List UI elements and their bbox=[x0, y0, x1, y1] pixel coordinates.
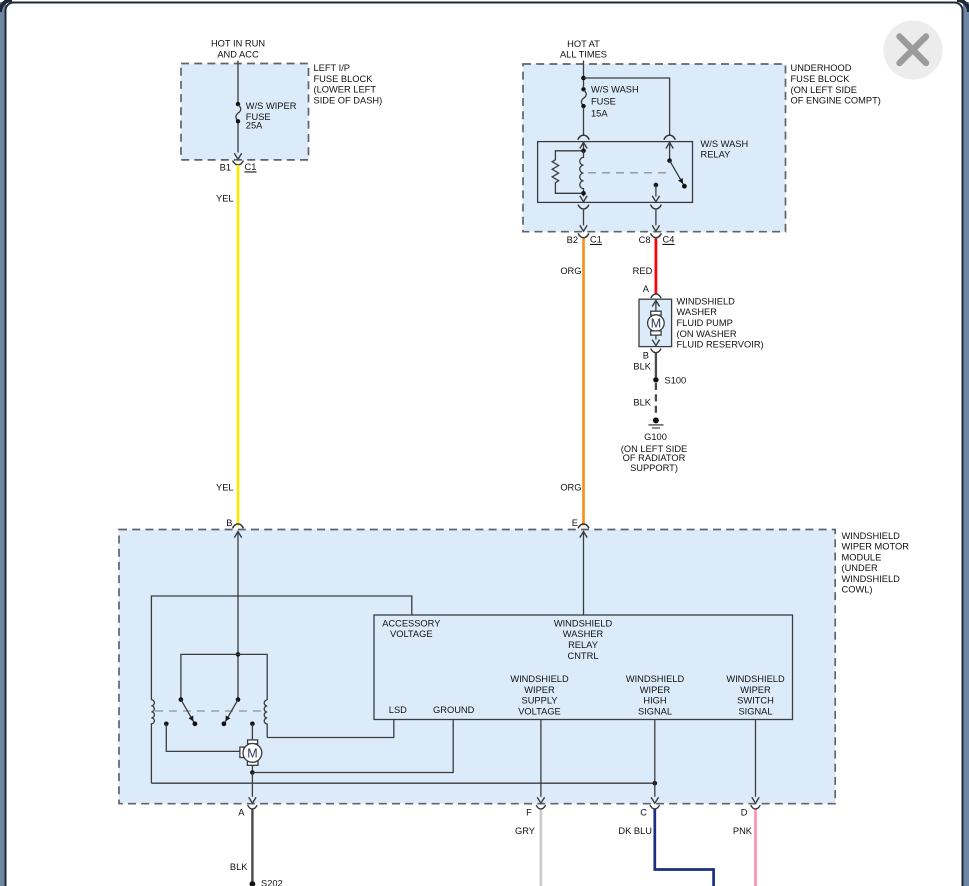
svg-text:15A: 15A bbox=[591, 108, 608, 118]
svg-text:BLK: BLK bbox=[633, 361, 651, 371]
ground wire motor to control box bbox=[252, 720, 453, 773]
relay coil bbox=[580, 149, 586, 196]
svg-text:CNTRL: CNTRL bbox=[568, 651, 599, 661]
svg-text:D: D bbox=[741, 808, 748, 818]
svg-text:FUSE BLOCK: FUSE BLOCK bbox=[314, 74, 374, 84]
wire PNK bbox=[754, 810, 757, 886]
svg-text:ORG: ORG bbox=[560, 483, 581, 493]
left I/P fuse block box bbox=[181, 64, 309, 160]
cup connector below pump bbox=[651, 349, 661, 353]
svg-text:F: F bbox=[526, 808, 532, 818]
svg-text:FLUID RESERVOIR): FLUID RESERVOIR) bbox=[677, 340, 764, 350]
switch feed rail bbox=[181, 654, 267, 700]
underhood fuse block box bbox=[523, 64, 786, 232]
svg-text:WINDSHIELD: WINDSHIELD bbox=[842, 531, 901, 541]
svg-text:WINDSHIELD: WINDSHIELD bbox=[677, 296, 736, 306]
accessory voltage feed wire bbox=[151, 596, 411, 700]
pin label E (module) bbox=[572, 518, 578, 528]
svg-text:(ON LEFT SIDE: (ON LEFT SIDE bbox=[791, 85, 857, 95]
junction dot on B wire bbox=[236, 652, 241, 657]
svg-text:RELAY: RELAY bbox=[701, 150, 731, 160]
svg-text:OF ENGINE COMPT): OF ENGINE COMPT) bbox=[791, 96, 881, 106]
svg-text:SIDE OF DASH): SIDE OF DASH) bbox=[314, 95, 383, 105]
connector cup B2/C1 bbox=[578, 233, 589, 237]
cap connector at pin E bbox=[578, 524, 589, 528]
svg-text:VOLTAGE: VOLTAGE bbox=[518, 706, 561, 716]
pin label F (bottom) bbox=[526, 808, 532, 818]
svg-text:VOLTAGE: VOLTAGE bbox=[390, 629, 433, 639]
label WINDSHIELD WIPER MOTOR MODULE bbox=[842, 531, 910, 595]
label S100 bbox=[665, 375, 687, 385]
SECTION: underhood fuse block bbox=[523, 39, 881, 526]
fuse W/S WASH 15A bbox=[581, 87, 586, 108]
svg-text:YEL: YEL bbox=[216, 483, 234, 493]
wire BLK dashed to ground bbox=[655, 383, 657, 417]
relay coil pin entry arrow bbox=[580, 143, 587, 151]
fuse W/S WIPER 25A bbox=[236, 102, 241, 124]
control unit box bbox=[374, 615, 793, 720]
svg-text:UNDERHOOD: UNDERHOOD bbox=[791, 63, 852, 73]
svg-text:C1: C1 bbox=[590, 235, 602, 245]
pin label B (module) bbox=[226, 518, 232, 528]
svg-text:YEL: YEL bbox=[216, 193, 234, 203]
label LEFT I/P FUSE BLOCK bbox=[314, 63, 383, 105]
pin label D (bottom) bbox=[741, 808, 748, 818]
wire pin B down to switch pivot bbox=[234, 532, 241, 700]
cap connector at pin B bbox=[233, 524, 244, 528]
label WINDSHIELD WASHER FLUID PUMP bbox=[677, 296, 764, 349]
pin label A (pump) bbox=[643, 284, 650, 294]
label W/S WIPER FUSE 25A bbox=[246, 101, 297, 131]
svg-text:G100: G100 bbox=[644, 432, 667, 442]
svg-text:WINDSHIELD: WINDSHIELD bbox=[510, 674, 569, 684]
label ORG upper bbox=[560, 266, 581, 276]
svg-text:LEFT I/P: LEFT I/P bbox=[314, 63, 351, 73]
svg-text:ACCESSORY: ACCESSORY bbox=[382, 618, 440, 628]
svg-text:WIPER: WIPER bbox=[740, 685, 771, 695]
svg-text:SUPPLY: SUPPLY bbox=[522, 696, 558, 706]
linkage dashed (module) bbox=[155, 710, 264, 712]
SECTION: wiper motor module bbox=[119, 518, 909, 804]
wire YEL vertical bbox=[237, 165, 240, 526]
svg-text:SUPPORT): SUPPORT) bbox=[630, 463, 678, 473]
label WINDSHIELD WASHER RELAY CNTRL bbox=[554, 618, 613, 660]
connector cup pin F bbox=[536, 805, 546, 809]
svg-text:FUSE: FUSE bbox=[591, 97, 616, 107]
svg-text:RELAY: RELAY bbox=[568, 640, 598, 650]
wire BLK to S202 bbox=[251, 810, 253, 883]
svg-text:SIGNAL: SIGNAL bbox=[638, 706, 672, 716]
pin label C1 underlined bbox=[590, 235, 602, 245]
relay coil exit arrow bbox=[580, 196, 587, 202]
label UNDERHOOD FUSE BLOCK bbox=[791, 63, 881, 105]
svg-text:OF RADIATOR: OF RADIATOR bbox=[623, 453, 686, 463]
svg-text:WASHER: WASHER bbox=[563, 629, 604, 639]
svg-text:SWITCH: SWITCH bbox=[737, 696, 774, 706]
label YEL upper bbox=[216, 193, 234, 203]
label RED bbox=[633, 266, 653, 276]
label WINDSHIELD WIPER HIGH SIGNAL bbox=[626, 674, 685, 716]
splice S100 bbox=[653, 377, 658, 382]
svg-text:WINDSHIELD: WINDSHIELD bbox=[726, 674, 785, 684]
relay coil-pin cap connector bbox=[578, 135, 589, 140]
svg-text:MODULE: MODULE bbox=[842, 552, 882, 562]
svg-text:HIGH: HIGH bbox=[643, 696, 666, 706]
wire pin E down to control box bbox=[580, 532, 587, 615]
pin label C4 underlined bbox=[663, 235, 675, 245]
label BLK lower bbox=[633, 398, 651, 408]
label ACCESSORY VOLTAGE bbox=[382, 618, 440, 639]
left park coil bbox=[151, 700, 154, 783]
wire relay to box edge left bbox=[580, 210, 587, 231]
motor top contact bbox=[250, 722, 255, 741]
label BLK (bottom) bbox=[230, 862, 248, 872]
wire DK BLU bbox=[655, 810, 714, 886]
svg-text:(ON WASHER: (ON WASHER bbox=[677, 329, 737, 339]
windshield wiper motor module box bbox=[119, 530, 835, 804]
motor output junction bbox=[250, 765, 255, 774]
svg-text:SIGNAL: SIGNAL bbox=[738, 706, 772, 716]
SECTION: left fuse block bbox=[181, 39, 382, 526]
svg-text:B: B bbox=[226, 518, 232, 528]
pin label A (bottom) bbox=[238, 808, 245, 818]
svg-text:(UNDER: (UNDER bbox=[842, 563, 878, 573]
svg-text:HOT IN RUN: HOT IN RUN bbox=[211, 39, 265, 49]
relay resistor bbox=[552, 151, 583, 194]
svg-text:FLUID PUMP: FLUID PUMP bbox=[677, 318, 733, 328]
svg-text:WINDSHIELD: WINDSHIELD bbox=[554, 618, 613, 628]
label ORG lower bbox=[560, 483, 581, 493]
right park coil bbox=[264, 700, 267, 738]
cap connector above pump bbox=[651, 294, 661, 298]
svg-text:COWL): COWL) bbox=[842, 585, 873, 595]
label W/S WASH FUSE 15A bbox=[591, 84, 639, 118]
label GROUND bbox=[433, 705, 475, 715]
relay switch blade bbox=[667, 158, 687, 188]
svg-text:BLK: BLK bbox=[230, 862, 248, 872]
svg-text:HOT AT: HOT AT bbox=[567, 39, 600, 49]
wire branch to relay switch pin bbox=[584, 78, 670, 136]
svg-text:ORG: ORG bbox=[560, 266, 581, 276]
connector cup C8/C4 bbox=[651, 233, 662, 237]
node HOT IN RUN AND ACC bbox=[211, 39, 265, 60]
connector cup B1/C1 bbox=[233, 161, 244, 165]
svg-text:(LOWER LEFT: (LOWER LEFT bbox=[314, 85, 377, 95]
svg-text:E: E bbox=[572, 518, 578, 528]
pin label C1 underlined bbox=[245, 162, 257, 172]
svg-text:FUSE BLOCK: FUSE BLOCK bbox=[791, 74, 851, 84]
right switch blade bbox=[222, 697, 241, 726]
svg-text:W/S WASH: W/S WASH bbox=[591, 84, 639, 94]
svg-text:M: M bbox=[651, 317, 661, 331]
pump motor M bbox=[648, 301, 665, 346]
wire from fuse to relay bbox=[583, 107, 585, 136]
wire feed into fuse bbox=[237, 61, 239, 103]
wire ORG vertical bbox=[582, 238, 585, 525]
pin label C8 bbox=[639, 235, 651, 245]
svg-text:B2: B2 bbox=[567, 235, 578, 245]
svg-text:WINDSHIELD: WINDSHIELD bbox=[842, 574, 901, 584]
junction dot bbox=[581, 76, 586, 81]
wire BLK from pump to S100 bbox=[655, 353, 657, 378]
svg-text:WIPER: WIPER bbox=[524, 685, 555, 695]
label PNK bbox=[733, 826, 753, 836]
relay switch pin entry arrow bbox=[666, 143, 673, 161]
wire C high signal bbox=[651, 720, 658, 804]
label W/S WASH RELAY bbox=[701, 139, 749, 160]
wire D switch signal bbox=[752, 720, 759, 804]
label ON LEFT SIDE OF RADIATOR SUPPORT bbox=[621, 444, 687, 473]
svg-text:C4: C4 bbox=[663, 235, 675, 245]
wire F supply voltage bbox=[537, 720, 544, 804]
pin label B1 bbox=[220, 163, 231, 173]
svg-text:WIPER MOTOR: WIPER MOTOR bbox=[842, 542, 910, 552]
label S202 bbox=[261, 879, 283, 886]
svg-text:M: M bbox=[247, 747, 257, 761]
relay switch-pin cap connector bbox=[664, 135, 675, 140]
cup below relay right pin bbox=[651, 205, 662, 209]
label BLK upper bbox=[633, 361, 651, 371]
connector cup pin A bbox=[248, 805, 258, 809]
wiper motor M bbox=[240, 740, 262, 765]
svg-text:S100: S100 bbox=[665, 375, 687, 385]
svg-text:S202: S202 bbox=[261, 879, 283, 886]
label DK BLU bbox=[618, 826, 652, 836]
svg-text:W/S WASH: W/S WASH bbox=[701, 139, 749, 149]
close button bbox=[884, 21, 943, 80]
relay linkage dashed bbox=[588, 172, 667, 174]
svg-text:WINDSHIELD: WINDSHIELD bbox=[626, 674, 685, 684]
svg-text:W/S WIPER: W/S WIPER bbox=[246, 101, 297, 111]
ground G100 bbox=[648, 417, 663, 428]
wire RED vertical bbox=[655, 238, 658, 294]
svg-text:C8: C8 bbox=[639, 235, 651, 245]
svg-text:RED: RED bbox=[633, 266, 653, 276]
svg-text:AND ACC: AND ACC bbox=[217, 50, 259, 60]
svg-text:C: C bbox=[640, 808, 647, 818]
label YEL lower bbox=[216, 483, 234, 493]
bottom rail to high signal wire bbox=[151, 781, 657, 786]
svg-text:DK BLU: DK BLU bbox=[618, 826, 652, 836]
svg-text:B: B bbox=[643, 351, 649, 361]
svg-text:LSD: LSD bbox=[389, 705, 407, 715]
pin label B (pump) bbox=[643, 351, 649, 361]
svg-text:PNK: PNK bbox=[733, 826, 753, 836]
svg-text:BLK: BLK bbox=[633, 398, 651, 408]
wire GRY bbox=[540, 810, 543, 886]
svg-text:WIPER: WIPER bbox=[640, 685, 671, 695]
label G100 bbox=[644, 432, 667, 442]
wire from fuse to box edge with arrow bbox=[234, 123, 241, 159]
svg-text:GROUND: GROUND bbox=[433, 705, 475, 715]
cup below relay left pin bbox=[578, 205, 589, 209]
svg-text:B1: B1 bbox=[220, 163, 231, 173]
washer pump box bbox=[639, 299, 672, 346]
label GRY bbox=[515, 826, 535, 836]
W/S WASH relay box bbox=[538, 142, 693, 203]
SECTION: bottom wires bbox=[230, 805, 760, 886]
LSD wire from right coil bbox=[267, 720, 394, 738]
splice S202 bbox=[250, 881, 256, 886]
connector cup pin D bbox=[751, 805, 761, 809]
connector cup pin C bbox=[650, 805, 660, 809]
node HOT AT ALL TIMES bbox=[560, 39, 607, 60]
svg-text:ALL TIMES: ALL TIMES bbox=[560, 50, 607, 60]
label WINDSHIELD WIPER SUPPLY VOLTAGE bbox=[510, 674, 569, 716]
svg-text:A: A bbox=[238, 808, 245, 818]
pin label B2 bbox=[567, 235, 578, 245]
svg-text:25A: 25A bbox=[246, 121, 263, 131]
left switch blade bbox=[179, 697, 198, 726]
wire feed from HOT AT bbox=[583, 61, 585, 88]
wire relay to box edge right bbox=[652, 210, 659, 231]
svg-text:GRY: GRY bbox=[515, 826, 535, 836]
relay output contact and arrow bbox=[652, 183, 659, 202]
label WINDSHIELD WIPER SWITCH SIGNAL bbox=[726, 674, 785, 716]
svg-text:WASHER: WASHER bbox=[677, 307, 718, 317]
pin label C (bottom) bbox=[640, 808, 647, 818]
park contact to motor wire bbox=[164, 722, 240, 752]
svg-text:A: A bbox=[643, 284, 650, 294]
svg-text:C1: C1 bbox=[245, 162, 257, 172]
SECTION: washer pump and ground bbox=[621, 284, 764, 473]
label LSD bbox=[389, 705, 407, 715]
wire A ground out bbox=[249, 773, 256, 804]
